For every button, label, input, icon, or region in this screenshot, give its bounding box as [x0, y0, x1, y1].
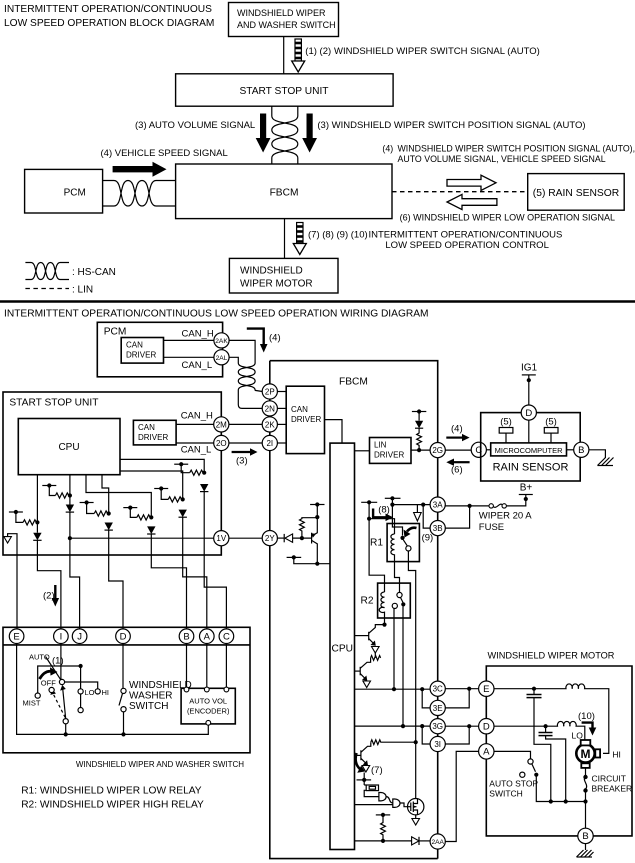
wire 2P to CAN driver	[277, 391, 286, 393]
wire2 lower	[69, 512, 71, 555]
svg-text:B: B	[578, 445, 584, 456]
wire CPU to LIN driver	[355, 450, 370, 452]
svg-text:CAN_L: CAN_L	[181, 445, 212, 456]
wire 3A line	[392, 504, 430, 506]
svg-text:AUTO: AUTO	[29, 653, 50, 662]
svg-text:LO: LO	[572, 731, 584, 741]
connector 3B	[430, 521, 445, 536]
resistor network 6	[190, 470, 204, 475]
svg-text:WIPER MOTOR: WIPER MOTOR	[240, 279, 313, 290]
diode wire1	[33, 533, 41, 541]
thick arrow down right (3)	[302, 114, 317, 153]
logic gate 1	[379, 793, 386, 801]
relay R2 switch	[392, 592, 405, 608]
svg-text:3C: 3C	[433, 685, 443, 694]
wire microcomputer to B	[567, 449, 574, 451]
(8) supply node rail	[361, 500, 377, 521]
PCM unit box	[97, 322, 222, 377]
svg-text:WINDSHIELD: WINDSHIELD	[129, 680, 192, 691]
twisted pair start stop unit to FBCM	[272, 106, 298, 164]
switch box outline	[3, 627, 250, 753]
svg-text:START STOP UNIT: START STOP UNIT	[239, 86, 328, 97]
svg-text:CPU: CPU	[58, 442, 79, 453]
connector 3I	[430, 736, 445, 751]
title block diagram	[4, 4, 214, 29]
encoder pin A	[204, 687, 209, 692]
wire 1V to 2Y	[229, 537, 262, 539]
svg-text:R1: R1	[370, 538, 383, 549]
resistor 2AA pulldown	[381, 815, 386, 841]
svg-text:E: E	[483, 684, 489, 695]
svg-text:B+: B+	[520, 483, 533, 494]
wire4 lower	[150, 534, 152, 555]
junction wire4	[149, 515, 153, 519]
lever dashed OFF position	[53, 693, 66, 718]
wire fuse to 3A	[445, 505, 489, 507]
wire pivot to HI	[65, 682, 98, 689]
encoder bottom pin	[206, 720, 211, 725]
svg-text:WINDSHIELD WIPER MOTOR: WINDSHIELD WIPER MOTOR	[488, 651, 615, 661]
capacitor E branch	[527, 689, 551, 802]
svg-text:(5): (5)	[500, 417, 512, 428]
diode wire4	[147, 526, 155, 534]
open arrow marker MOSFET source	[412, 819, 420, 826]
wire CAN driver to CPU	[325, 420, 343, 444]
block FBCM	[176, 164, 392, 219]
svg-text:D: D	[483, 722, 490, 733]
svg-text:E: E	[13, 632, 19, 643]
B+ terminal	[519, 483, 533, 502]
pullup rail 2	[42, 483, 56, 495]
open arrow marker Q1 emitter	[372, 647, 380, 654]
open arrow marker Q3 emitter	[362, 766, 370, 773]
wire (8) node down to R2 coil	[369, 519, 384, 592]
hatched arrow (1)(2)	[292, 39, 305, 72]
svg-text:AUTO STOP: AUTO STOP	[489, 779, 538, 789]
legend LIN dashed	[25, 288, 69, 290]
svg-text:SWITCH: SWITCH	[129, 701, 168, 712]
connector 3E	[430, 700, 445, 715]
connector 3G	[430, 719, 445, 734]
svg-text:HI: HI	[612, 750, 621, 760]
wire 3I to D node	[445, 726, 469, 744]
svg-text:J: J	[77, 632, 82, 643]
svg-text:OFF: OFF	[41, 679, 56, 688]
resistor Q1-Q2	[371, 653, 381, 660]
svg-text:(4): (4)	[451, 424, 463, 435]
svg-text:(1) (2): (1) (2)	[305, 46, 331, 57]
connector 2G	[430, 443, 445, 458]
sensor element (5) right	[544, 417, 558, 443]
contact OFF	[49, 687, 54, 692]
pullup rail 5	[154, 486, 168, 499]
wire CPU drop 3	[102, 475, 109, 514]
pullup rail 6	[174, 462, 190, 473]
wire 2G to C	[445, 449, 471, 451]
pullup rail 4	[123, 506, 137, 518]
block PCM	[25, 169, 103, 213]
svg-text:2O: 2O	[216, 439, 227, 448]
connector 1V	[214, 531, 229, 546]
wire CAN driver to 2AK	[164, 339, 215, 341]
svg-text:C: C	[223, 632, 230, 643]
svg-text:(3) WINDSHIELD WIPER SWITCH P: (3) WINDSHIELD WIPER SWITCH POSITION SIG…	[317, 120, 585, 131]
common contact bottom	[63, 719, 68, 724]
emitter rail 2Y transistor	[287, 555, 330, 563]
MOSFET Q5	[408, 799, 424, 815]
START STOP UNIT box	[3, 392, 221, 555]
block windshield wiper and washer switch	[229, 3, 339, 37]
LIN pullup rail	[412, 409, 426, 420]
LIN diode	[415, 421, 423, 429]
connector E motor	[479, 681, 494, 696]
svg-text:3I: 3I	[434, 740, 441, 749]
junction emitter line	[315, 562, 319, 566]
svg-text:AUTO VOL: AUTO VOL	[189, 697, 227, 706]
motor box outline	[486, 666, 632, 836]
svg-text:3E: 3E	[433, 704, 443, 713]
twisted pair PCM to FBCM	[103, 181, 176, 207]
contact LO lower	[78, 708, 83, 713]
CPU box (start stop unit)	[18, 419, 120, 475]
wire (8) node to R1 coil	[369, 519, 394, 534]
svg-text:A: A	[204, 632, 211, 643]
dashed line LIN FBCM to rain sensor	[392, 191, 528, 193]
wire fuse node to 3B	[445, 506, 469, 528]
svg-text:: HS-CAN: : HS-CAN	[72, 267, 116, 278]
svg-text:(3) AUTO VOLUME SIGNAL: (3) AUTO VOLUME SIGNAL	[135, 120, 255, 131]
wire R1 coil bottom to R2 switch	[395, 562, 400, 593]
junction R2 coil bottom	[382, 623, 386, 627]
svg-text:(5) RAIN SENSOR: (5) RAIN SENSOR	[533, 188, 619, 199]
resistor network 5	[168, 497, 182, 502]
svg-text:2AA: 2AA	[431, 839, 444, 846]
wire CAN driver to 2O	[176, 442, 214, 444]
rain sensor box	[481, 413, 581, 481]
svg-text:B: B	[183, 632, 189, 643]
wire4 to B	[151, 555, 186, 629]
bottom bus wire	[17, 644, 209, 735]
wire common to bus	[65, 724, 67, 735]
svg-text:R1: WINDSHIELD WIPER LOW RELAY: R1: WINDSHIELD WIPER LOW RELAY	[21, 786, 202, 797]
svg-text:CAN: CAN	[291, 405, 308, 414]
svg-text:2G: 2G	[432, 446, 443, 455]
circuit breaker	[583, 768, 587, 802]
wire D to washer switch	[122, 644, 124, 689]
annotation curved arrow (9)	[404, 528, 434, 544]
svg-text:WIPER 20 A: WIPER 20 A	[479, 511, 532, 522]
svg-text:START STOP UNIT: START STOP UNIT	[9, 398, 98, 409]
svg-text:LOW SPEED OPERATION BLOCK DIAG: LOW SPEED OPERATION BLOCK DIAGRAM	[4, 18, 214, 29]
FBCM CAN driver box	[286, 386, 324, 453]
connector 3C	[430, 681, 445, 696]
wire oscillator to gate1	[364, 790, 379, 796]
junction LIN node	[417, 448, 421, 452]
connector E	[9, 629, 24, 644]
svg-text:I: I	[60, 632, 63, 643]
wire D line with inductor	[494, 721, 585, 739]
diode 2AA	[412, 837, 431, 845]
relay R1 coil	[391, 534, 395, 562]
junction D cap	[544, 724, 548, 728]
svg-text:BREAKER: BREAKER	[592, 784, 633, 794]
capacitor D branch	[539, 726, 566, 801]
wire 2M to 2K	[229, 423, 262, 425]
wire B to ground	[585, 844, 587, 850]
svg-text:B: B	[582, 831, 588, 842]
block start stop unit	[176, 74, 394, 106]
svg-text:(4): (4)	[382, 144, 393, 154]
open arrow marker on 3A line	[414, 505, 422, 521]
svg-text:CAN_L: CAN_L	[182, 360, 213, 371]
transistor Q3 ((7) driver)	[355, 742, 371, 765]
wire C to microcomputer	[486, 449, 490, 451]
resistor network 2	[55, 493, 69, 498]
svg-text:(4) VEHICLE SPEED SIGNAL: (4) VEHICLE SPEED SIGNAL	[101, 148, 228, 159]
svg-text:WINDSHIELD: WINDSHIELD	[240, 266, 303, 277]
wire 3G line	[355, 725, 431, 727]
wire washer to bus	[123, 712, 125, 735]
wire bus to B	[585, 802, 587, 829]
relay R2 coil	[379, 592, 384, 625]
wire LO lower stub	[80, 694, 82, 708]
svg-text:LIN: LIN	[374, 441, 387, 450]
svg-text:CAN: CAN	[138, 423, 155, 432]
connector 2AA	[430, 834, 445, 849]
svg-text:R2: R2	[361, 596, 374, 607]
wire R2 left contact to 3C line	[393, 608, 395, 689]
pullup rail 3	[80, 500, 95, 513]
annotation arrow (4) right	[446, 424, 469, 442]
junction E cap	[532, 687, 536, 691]
relay R1 box	[370, 524, 419, 562]
svg-text:A: A	[483, 747, 490, 758]
svg-text:M: M	[581, 747, 591, 761]
svg-text:CPU: CPU	[332, 644, 354, 655]
svg-text:LOW SPEED OPERATION CONTROL: LOW SPEED OPERATION CONTROL	[385, 240, 548, 251]
svg-text:2I: 2I	[266, 439, 273, 448]
svg-text:(3): (3)	[236, 456, 248, 467]
wire 3A node down to R1 switch	[392, 505, 402, 536]
svg-text:WASHER: WASHER	[129, 691, 173, 702]
junction wire6	[202, 471, 206, 475]
annotation arrow (8)	[373, 505, 393, 522]
svg-text:(6): (6)	[451, 465, 463, 476]
svg-text:(9): (9)	[422, 533, 434, 544]
wire CPU stub 5	[120, 471, 183, 499]
svg-text:2N: 2N	[265, 404, 275, 413]
svg-text:2K: 2K	[265, 420, 275, 429]
svg-text:WINDSHIELD WIPER AND WASHER SW: WINDSHIELD WIPER AND WASHER SWITCH	[76, 760, 244, 769]
svg-text:RAIN SENSOR: RAIN SENSOR	[493, 462, 569, 474]
wire CAN driver to 2M	[176, 423, 214, 425]
microcomputer box	[491, 443, 567, 456]
motor M	[576, 740, 600, 768]
LIN resistor	[417, 428, 422, 450]
transistor Q4 (2Y input)	[312, 517, 318, 564]
svg-text:(5): (5)	[545, 417, 557, 428]
connector 2AK	[214, 333, 229, 348]
svg-text:AND WASHER SWITCH: AND WASHER SWITCH	[237, 20, 336, 30]
svg-text:(ENCODER): (ENCODER)	[187, 707, 230, 716]
svg-text:SWITCH: SWITCH	[489, 789, 523, 799]
wire 2AL to twist	[229, 357, 238, 361]
connector D rain sensor	[521, 405, 536, 420]
connector I	[54, 629, 69, 644]
pullup rail 1	[9, 510, 23, 523]
wire 1V line	[70, 537, 214, 539]
wire CPU drop 1	[36, 475, 38, 533]
svg-text:FBCM: FBCM	[339, 377, 368, 388]
wire CPU drop 2	[69, 475, 71, 505]
IG1 terminal	[521, 363, 538, 406]
diode at 2Y	[284, 534, 292, 542]
junction wire2	[68, 493, 72, 497]
wire B+ to fuse	[506, 495, 526, 506]
ground rain sensor	[598, 458, 614, 466]
wire gate2 to MOSFET	[400, 803, 407, 807]
svg-text:2AK: 2AK	[215, 338, 228, 345]
lever common line with arrow	[60, 685, 66, 719]
junction wire5	[181, 497, 185, 501]
connector B	[179, 629, 194, 644]
connector 2P	[262, 384, 277, 399]
CPU box (FBCM)	[330, 443, 355, 849]
CAN driver box (start stop unit)	[133, 420, 176, 445]
wire6 lower	[203, 492, 205, 555]
connector J	[72, 629, 87, 644]
wire LIN driver to 2G	[411, 449, 430, 451]
wire1 to I	[37, 555, 61, 629]
connector A motor	[479, 744, 494, 759]
wire FBCM to wiper motor	[284, 219, 286, 259]
svg-text:MICROCOMPUTER: MICROCOMPUTER	[495, 446, 563, 455]
wire J tee to MIST	[38, 666, 81, 693]
wire 3C to E	[445, 688, 478, 690]
wire A to encoder	[206, 644, 208, 689]
wire E input with marker	[8, 534, 17, 555]
wire B to ground	[589, 450, 606, 458]
svg-text:(4): (4)	[269, 333, 281, 344]
wire 2AA line	[355, 840, 412, 842]
svg-text:(1): (1)	[52, 656, 64, 667]
annotation arrow (6) left	[446, 459, 469, 476]
svg-text:: LIN: : LIN	[72, 285, 93, 296]
junction collector 2Y transistor	[315, 515, 319, 519]
svg-text:WINDSHIELD WIPER: WINDSHIELD WIPER	[237, 8, 326, 18]
svg-text:(10): (10)	[578, 711, 595, 722]
svg-text:LO: LO	[85, 688, 95, 697]
FBCM box outline	[270, 361, 438, 859]
separator line	[0, 300, 635, 303]
auto vol encoder box	[181, 688, 235, 724]
transistor Q1 (R2 driver)	[355, 625, 385, 646]
contact LO	[78, 689, 83, 694]
contact HI	[95, 689, 100, 694]
wire 2K to CAN driver	[277, 423, 286, 425]
wire gate1 to gate2	[386, 797, 393, 803]
outline arrow right FBCM to rain sensor	[447, 175, 496, 190]
relay R2 box	[361, 583, 411, 618]
svg-text:FBCM: FBCM	[270, 188, 299, 199]
encoder pin B	[184, 687, 189, 692]
connector C rain sensor	[471, 442, 486, 457]
svg-text:AUTO VOLUME SIGNAL, VEHICLE SP: AUTO VOLUME SIGNAL, VEHICLE SPEED SIGNAL	[398, 154, 606, 164]
diode wire6	[200, 484, 208, 492]
wire CPU drop 4	[86, 475, 151, 518]
svg-text:3B: 3B	[433, 524, 443, 533]
wire J to LO	[80, 666, 82, 689]
junction wire2 1V line	[68, 536, 72, 540]
wire5 to A	[183, 555, 207, 629]
connector A	[200, 629, 215, 644]
wire R2 common to 3G line	[402, 606, 404, 726]
svg-text:MIST: MIST	[23, 699, 41, 708]
wire 2O to 2I	[229, 442, 262, 444]
wire 2N to CAN driver	[277, 407, 286, 409]
wire E line with inductor	[494, 684, 609, 753]
wire auto stop to bus	[536, 775, 585, 802]
pulldown rail 2AA	[376, 813, 390, 817]
logic gate 2	[393, 799, 400, 807]
wire3 lower	[108, 530, 110, 555]
wire6 to C	[204, 555, 226, 629]
wire I to pivot	[60, 644, 62, 680]
connector D motor	[479, 719, 494, 734]
connector B rain sensor	[574, 442, 589, 457]
svg-text:CIRCUIT: CIRCUIT	[592, 774, 626, 784]
svg-text:2AL: 2AL	[216, 355, 228, 362]
wire CAN driver to 2AL	[164, 356, 215, 358]
connector D	[116, 629, 131, 644]
svg-text:D: D	[525, 408, 532, 419]
sensor element (5) left	[499, 417, 513, 443]
block windshield wiper motor	[229, 258, 338, 293]
connector 2Y	[262, 531, 277, 546]
diode wire5	[179, 510, 187, 518]
svg-text:CAN_H: CAN_H	[181, 411, 213, 422]
wire switch to start stop unit	[283, 37, 285, 75]
svg-text:PCM: PCM	[64, 188, 86, 199]
connector C	[219, 629, 234, 644]
wire E to switch box	[16, 555, 18, 629]
wire R1 switch to MOSFET drain line	[408, 551, 415, 799]
wire 3C line	[355, 688, 431, 690]
wire CPU to gate2	[355, 804, 393, 806]
junction wire3	[107, 511, 111, 515]
wire D to microcomputer	[528, 420, 530, 443]
pullup resistor 2Y node	[300, 518, 318, 538]
diode wire3	[105, 523, 113, 531]
thick arrow right (4)	[113, 162, 167, 177]
svg-text:CAN: CAN	[126, 341, 143, 350]
svg-text:3G: 3G	[432, 722, 443, 731]
block rain sensor	[528, 174, 625, 211]
wire 3G to D	[445, 725, 478, 727]
wire 2AA to A	[445, 751, 478, 841]
resistor network 3	[94, 511, 108, 516]
connector band line	[3, 644, 250, 646]
svg-text:D: D	[120, 632, 127, 643]
svg-text:R2: WINDSHIELD WIPER HIGH RELA: R2: WINDSHIELD WIPER HIGH RELAY	[21, 800, 204, 811]
annotation arrow (4) down	[247, 329, 281, 353]
svg-text:DRIVER: DRIVER	[374, 451, 404, 460]
washer switch contacts and lever	[119, 688, 126, 712]
svg-text:DRIVER: DRIVER	[138, 433, 168, 442]
connector 2O	[214, 435, 229, 450]
svg-text:DRIVER: DRIVER	[291, 415, 321, 424]
resistor network 4	[137, 515, 151, 520]
